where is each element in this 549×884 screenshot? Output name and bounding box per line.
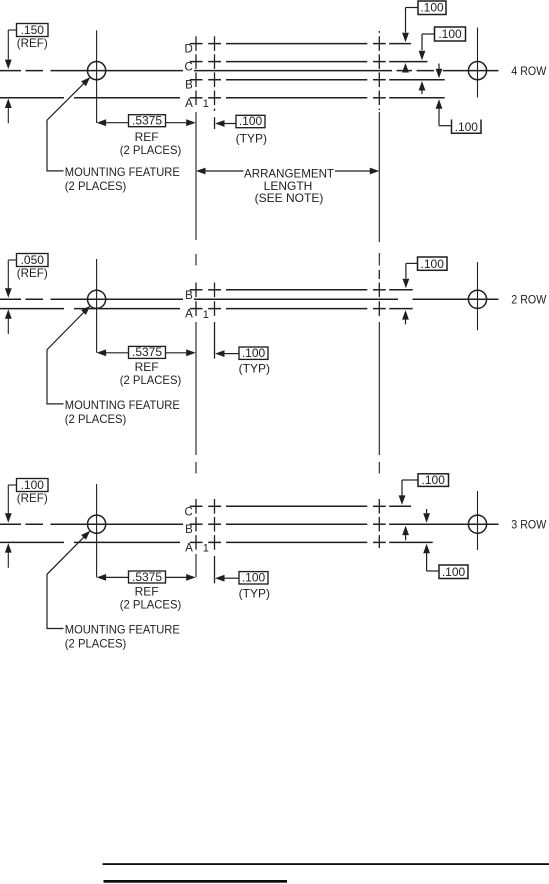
4ROW: arrow up at row A from below (left dim) — [5, 99, 12, 109]
4ROW: row A line — [0, 97, 64, 99]
3ROW: arrow up at row B from below (C-B dim) — [402, 526, 409, 536]
3ROW: dimension box .100 bottom (B-A) — [439, 565, 468, 579]
3ROW: row A line — [0, 541, 64, 543]
svg-text:C: C — [184, 62, 192, 74]
svg-text:MOUNTING FEATURE: MOUNTING FEATURE — [65, 165, 180, 179]
arrangement length dimension line — [196, 168, 206, 175]
2ROW: leader from .050 box to centerline — [8, 259, 16, 261]
2ROW: dimension box .050 — [17, 254, 49, 267]
4ROW: pin column 2 centerline — [214, 36, 216, 51]
3ROW: left mounting hole circle — [88, 515, 106, 533]
svg-text:.100: .100 — [438, 27, 462, 41]
svg-text:2 ROW: 2 ROW — [511, 293, 547, 307]
svg-text:.100: .100 — [239, 114, 263, 128]
3ROW: right mounting hole vertical centerline — [477, 491, 479, 550]
4ROW: dimension box .100 second (C-B) — [435, 27, 466, 41]
svg-text:.100: .100 — [421, 257, 445, 271]
3ROW: dimension box .100 — [17, 479, 49, 492]
4ROW: dimension box .100 bottom open-top (B-A) — [452, 120, 482, 134]
4ROW: row D line — [190, 43, 203, 45]
svg-text:.100: .100 — [242, 346, 266, 360]
4ROW: dimension box .150 — [17, 24, 49, 37]
4ROW: left mounting hole circle — [88, 62, 106, 80]
svg-text:(2 PLACES): (2 PLACES) — [120, 373, 182, 387]
4ROW: arrow up at row C from below (D-C dim) — [402, 63, 409, 73]
4ROW: leader from second .100 box to row C — [422, 33, 435, 35]
svg-text:(TYP): (TYP) — [239, 362, 270, 376]
2ROW: row B line — [190, 289, 203, 291]
3ROW: arrow up at row A from below (B-A dim) — [423, 544, 430, 554]
svg-text:(TYP): (TYP) — [239, 586, 270, 600]
3ROW: dimension .5375 REF — [97, 574, 107, 581]
4ROW: arrow down at row B from above (B-A dim) — [438, 64, 440, 70]
2ROW: dimension .5375 REF — [97, 349, 107, 356]
4ROW: right mounting hole circle — [468, 62, 486, 80]
svg-text:(REF): (REF) — [17, 491, 48, 505]
svg-text:MOUNTING FEATURE: MOUNTING FEATURE — [65, 398, 180, 412]
4ROW: mounting centerline — [0, 70, 21, 72]
svg-text:4 ROW: 4 ROW — [511, 64, 547, 78]
svg-text:(SEE NOTE): (SEE NOTE) — [255, 191, 324, 205]
4ROW: dimension .5375 REF — [97, 119, 107, 126]
3ROW: leader from .100 box to centerline — [8, 484, 16, 486]
4ROW: left mounting hole vertical centerline — [96, 30, 98, 123]
4ROW: leader from .150 box to centerline — [8, 29, 16, 31]
3ROW: dimension .100 TYP — [215, 575, 225, 582]
svg-text:B: B — [185, 80, 193, 92]
4ROW: arrow up at row B from below (C-B dim) — [419, 81, 426, 91]
svg-text:A: A — [185, 309, 193, 321]
2ROW: dimension box .100 right (B-A) — [418, 257, 448, 270]
svg-text:1: 1 — [203, 309, 209, 321]
svg-text:C: C — [184, 506, 192, 518]
4ROW: arrow up at row A from below (B-A dim) — [436, 99, 443, 109]
svg-text:3 ROW: 3 ROW — [511, 518, 547, 532]
2ROW: pin column 1 centerline — [195, 283, 197, 298]
4ROW: right mounting hole vertical centerline — [477, 28, 479, 98]
2ROW: arrow up at row A from below (left dim) — [5, 309, 12, 319]
2ROW: right mounting hole vertical centerline — [477, 262, 479, 330]
extension line pin column 1 between sections — [195, 112, 197, 240]
2ROW: leader from .100 box to row B — [406, 262, 418, 264]
svg-text:A: A — [185, 98, 193, 110]
svg-text:B: B — [185, 290, 193, 302]
3ROW: pin column 1 centerline — [195, 499, 197, 514]
3ROW: leader arrow to left mounting hole — [81, 531, 90, 540]
svg-text:1: 1 — [203, 543, 209, 555]
4ROW: leader arrow to left mounting hole — [81, 77, 90, 86]
3ROW: row B line — [190, 523, 203, 525]
3ROW: last pin column centerline — [378, 499, 380, 514]
4ROW: pin column 1 centerline — [195, 36, 197, 51]
footer rule long — [103, 863, 549, 865]
svg-text:A: A — [185, 542, 193, 554]
svg-text:(2 PLACES): (2 PLACES) — [120, 143, 182, 157]
4ROW: dimension box .100 top (D-C) — [418, 1, 446, 15]
3ROW: arrow down at row B from above (B-A dim) — [426, 509, 428, 513]
4ROW: last pin column centerline — [378, 31, 380, 33]
2ROW: left mounting hole vertical centerline — [96, 259, 98, 353]
svg-text:B: B — [185, 524, 193, 536]
2ROW: mounting centerline — [0, 298, 21, 300]
svg-text:.100: .100 — [422, 473, 446, 487]
svg-text:.100: .100 — [455, 120, 479, 134]
svg-text:1: 1 — [203, 98, 209, 110]
svg-text:(REF): (REF) — [17, 36, 48, 50]
svg-text:(2 PLACES): (2 PLACES) — [65, 637, 127, 651]
3ROW: row C line — [190, 505, 203, 507]
svg-text:D: D — [184, 44, 192, 56]
2ROW: pin column 2 centerline — [214, 283, 216, 298]
svg-text:.100: .100 — [442, 565, 466, 579]
4ROW: dimension .100 TYP — [215, 120, 225, 127]
svg-text:(REF): (REF) — [17, 266, 48, 280]
2ROW: last pin column centerline — [378, 270, 380, 279]
3ROW: arrow up at row A from below (left dim) — [5, 543, 12, 553]
2ROW: row A line — [0, 308, 64, 310]
svg-text:(2 PLACES): (2 PLACES) — [65, 412, 127, 426]
4ROW: row B line — [190, 79, 203, 81]
svg-text:.5375: .5375 — [132, 345, 162, 359]
svg-text:.100: .100 — [420, 1, 444, 15]
4ROW: row C line — [190, 61, 203, 63]
svg-text:(2 PLACES): (2 PLACES) — [120, 598, 182, 612]
2ROW: right mounting hole circle — [468, 290, 486, 308]
extension line last pin column between sections — [378, 112, 380, 242]
footer rule short thick — [104, 880, 288, 883]
3ROW: pin column 2 centerline — [214, 499, 216, 514]
2ROW: leader arrow to left mounting hole — [81, 306, 90, 315]
3ROW: left mounting hole vertical centerline — [96, 484, 98, 577]
3ROW: mounting centerline — [0, 523, 21, 525]
3ROW: leader from top .100 box to row C — [402, 479, 418, 481]
svg-text:(2 PLACES): (2 PLACES) — [65, 179, 127, 193]
svg-text:.100: .100 — [242, 570, 266, 584]
2ROW: dimension .100 TYP — [215, 350, 225, 357]
2ROW: left mounting hole circle — [88, 290, 106, 308]
4ROW: leader from top .100 box to row D — [406, 7, 419, 9]
svg-text:.5375: .5375 — [132, 114, 162, 128]
2ROW: arrow up at row A from below (B-A dim) — [402, 310, 409, 320]
3ROW: dimension box .100 top (C-B) — [418, 474, 449, 487]
svg-text:.5375: .5375 — [132, 570, 162, 584]
3ROW: right mounting hole circle — [468, 515, 486, 533]
svg-text:(TYP): (TYP) — [236, 132, 267, 146]
svg-text:MOUNTING FEATURE: MOUNTING FEATURE — [65, 623, 180, 637]
